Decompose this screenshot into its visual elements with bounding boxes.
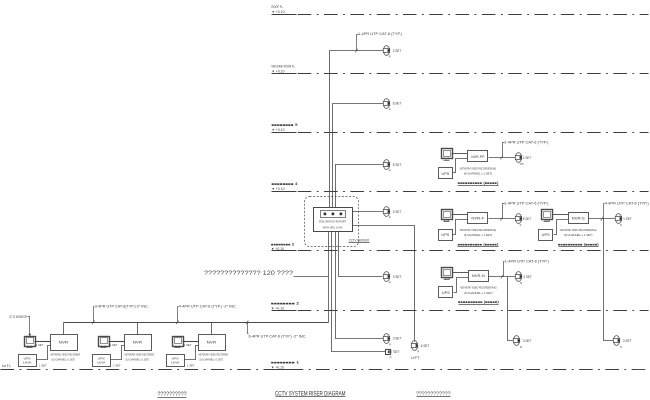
- floor label underline solids: [272, 14, 297, 16]
- recorder NVR-N: [469, 271, 489, 282]
- svg-text:1 SET: 1 SET: [110, 343, 118, 347]
- riser wire to 5th floor camera: [333, 104, 385, 208]
- CCTV server dashed enclosure: [305, 197, 359, 247]
- floor line 5th floor: [272, 132, 649, 134]
- wire UPS to NVR-S: [554, 220, 569, 235]
- monitor NVR-N: [442, 268, 453, 280]
- wire monitor to NVR-PP: [452, 153, 468, 155]
- svg-text:1 SET: 1 SET: [187, 364, 195, 368]
- svg-text:8 SET: 8 SET: [393, 163, 402, 167]
- svg-text:▼ +0.10: ▼ +0.10: [272, 187, 285, 191]
- svg-text:■■■■■■■■■■ (■■■■■): ■■■■■■■■■■ (■■■■■): [458, 242, 499, 246]
- UPS of NVR-S: [539, 230, 553, 241]
- monitor NVR-PP: [442, 149, 453, 161]
- svg-text:(8-CHANNEL x 1 SET): (8-CHANNEL x 1 SET): [464, 233, 492, 237]
- UPS 1KVA: [93, 355, 111, 367]
- svg-text:1st FL.: 1st FL.: [2, 364, 12, 368]
- UPS 1KVA: [19, 355, 37, 367]
- recorder NVR-S: [569, 213, 589, 224]
- camera 3rd floor 5 SET: [383, 207, 390, 217]
- wire UPS to NVR: [37, 346, 51, 360]
- monitor: [173, 337, 184, 348]
- svg-text:UPS: UPS: [441, 233, 450, 237]
- svg-text:NVR: NVR: [59, 340, 69, 345]
- svg-text:NETWORK VIDEO RECORDER: NETWORK VIDEO RECORDER: [51, 352, 81, 356]
- svg-text:NETWORK VIDEO RECORDER(PoE): NETWORK VIDEO RECORDER(PoE): [460, 228, 496, 232]
- recorder NVR: [51, 335, 78, 351]
- camera 2nd floor 3 SET: [383, 272, 390, 282]
- svg-text:P: P: [417, 350, 419, 354]
- svg-text:NVR-S: NVR-S: [572, 216, 586, 220]
- svg-text:P: P: [389, 342, 391, 346]
- svg-text:3 SET: 3 SET: [623, 339, 632, 343]
- svg-text:3 SET: 3 SET: [523, 339, 532, 343]
- POE switch box: [314, 208, 353, 232]
- riser wire to 4th floor camera: [336, 165, 385, 208]
- riser wire POE to ground bus: [328, 232, 330, 323]
- svg-text:CCTV SERVER: CCTV SERVER: [349, 238, 370, 242]
- floor line MACHINE ROOM FL: [272, 73, 649, 75]
- svg-text:1KVA: 1KVA: [97, 361, 106, 365]
- svg-text:3 SET: 3 SET: [393, 275, 402, 279]
- monitor NVR-F: [442, 210, 453, 222]
- svg-text:P: P: [389, 215, 391, 219]
- wire UPS to NVR: [111, 346, 125, 360]
- camera NVR-N camera: [515, 272, 522, 282]
- svg-text:ROOF FL.: ROOF FL.: [272, 5, 284, 9]
- svg-text:??????????: ??????????: [158, 392, 188, 398]
- svg-text:LIFT: LIFT: [411, 356, 420, 360]
- wire NVR-S down to 1st floor camera S: [604, 219, 615, 341]
- svg-text:NVR: NVR: [207, 340, 217, 345]
- svg-text:5 SET: 5 SET: [393, 210, 402, 214]
- svg-text:(8-CHANNEL x 1 SET): (8-CHANNEL x 1 SET): [464, 172, 492, 176]
- svg-text:6 SET: 6 SET: [421, 344, 430, 348]
- svg-text:1-4PR UTP CAT-6 (TYP.): 1-4PR UTP CAT-6 (TYP.): [505, 259, 549, 263]
- svg-text:■■■■■■■■■■ (■■■■■): ■■■■■■■■■■ (■■■■■): [558, 242, 599, 246]
- recorder NVR-F: [468, 213, 488, 224]
- svg-text:1 SET: 1 SET: [36, 343, 44, 347]
- svg-text:7 SET: 7 SET: [391, 350, 400, 354]
- svg-text:F: F: [520, 223, 522, 227]
- svg-text:NETWORK VIDEO RECORDER: NETWORK VIDEO RECORDER: [199, 352, 229, 356]
- svg-text:1KVA: 1KVA: [23, 361, 32, 365]
- drop from bus to NVR: [63, 323, 65, 335]
- svg-text:▼ +0.10: ▼ +0.10: [272, 128, 285, 132]
- camera NVR-S camera: [615, 214, 622, 224]
- svg-text:POE SWITCH 48 PORT: POE SWITCH 48 PORT: [319, 220, 346, 224]
- wire monitor to NVR-N: [453, 272, 469, 274]
- svg-text:(8-CHANNEL x 1 SET): (8-CHANNEL x 1 SET): [464, 291, 492, 295]
- camera NVR-PP camera: [515, 153, 522, 163]
- svg-text:UPS: UPS: [442, 291, 451, 295]
- svg-text:1-4PR UTP CAT-6 (TYP.): 1-4PR UTP CAT-6 (TYP.): [504, 202, 548, 206]
- svg-text:■■■■■■■■ 2: ■■■■■■■■ 2: [271, 302, 299, 306]
- wire UPS to NVR-PP: [453, 159, 468, 173]
- svg-text:P: P: [389, 107, 391, 111]
- svg-text:S: S: [620, 223, 622, 227]
- junction tick at NVR-S camera wire: [601, 217, 603, 221]
- svg-text:?????????????? 120 ????: ?????????????? 120 ????: [204, 270, 293, 277]
- svg-text:3 SET: 3 SET: [393, 337, 402, 341]
- svg-text:4-4PR UTP CAT-6 (TYP.) -2″ INC: 4-4PR UTP CAT-6 (TYP.) -2″ INC.: [179, 304, 237, 308]
- svg-text:WITH UPS 1 KVA: WITH UPS 1 KVA: [323, 226, 343, 230]
- svg-text:(16-CHANNEL x 1 SET): (16-CHANNEL x 1 SET): [52, 358, 76, 362]
- leader of note 120: [294, 276, 329, 278]
- svg-text:NETWORK VIDEO RECORDER(PoE): NETWORK VIDEO RECORDER(PoE): [560, 228, 596, 232]
- camera south 3 SET: [613, 336, 620, 346]
- monitor NVR-S: [542, 210, 553, 222]
- wire NVR-F to camera: [489, 218, 517, 220]
- wire NVR-N to camera: [489, 276, 517, 278]
- monitor: [99, 337, 110, 348]
- junction tick at NVR-PP camera wire: [500, 156, 502, 160]
- svg-text:CCTV MONITOR: CCTV MONITOR: [9, 315, 28, 319]
- UPS of NVR-N: [439, 287, 453, 298]
- wire monitor to NVR-F: [452, 214, 468, 216]
- monitor: [25, 337, 36, 348]
- svg-text:NVR-F: NVR-F: [471, 216, 485, 220]
- svg-text:▼ +0.10: ▼ +0.10: [271, 365, 284, 369]
- svg-text:■■■■■■■■ 5: ■■■■■■■■ 5: [272, 123, 298, 127]
- door device 7 SET: [386, 350, 391, 355]
- wire POE to lift camera: [353, 226, 415, 342]
- svg-text:NVR-PP: NVR-PP: [471, 155, 485, 159]
- floor line 2nd floor: [272, 310, 649, 312]
- riser wire POE to door station: [332, 232, 386, 352]
- camera roof 2 SET: [383, 46, 390, 56]
- drop from bus to NVR: [211, 323, 213, 335]
- svg-text:N: N: [520, 281, 522, 285]
- wire NVR-S to camera: [589, 218, 617, 220]
- wire monitor to NVR: [183, 341, 199, 343]
- camera north 3 SET: [513, 336, 520, 346]
- wire UPS to NVR: [185, 346, 199, 360]
- camera NVR-F camera: [515, 214, 522, 224]
- junction tick at NVR-N camera wire: [501, 275, 503, 279]
- floor line ROOF FL: [272, 14, 649, 16]
- wire NVR-PP to camera: [489, 157, 517, 159]
- wire monitor to NVR: [35, 341, 51, 343]
- svg-text:■■■■■■■■ 1: ■■■■■■■■ 1: [271, 361, 299, 365]
- svg-text:1 SET: 1 SET: [39, 364, 47, 368]
- svg-text:■■■■■■■■ 4: ■■■■■■■■ 4: [272, 182, 298, 186]
- svg-text:1KVA: 1KVA: [171, 361, 180, 365]
- svg-text:N: N: [520, 345, 522, 349]
- camera 1st floor 3 SET: [383, 334, 390, 344]
- svg-text:2 SET: 2 SET: [523, 156, 532, 160]
- svg-text:1 SET: 1 SET: [184, 343, 192, 347]
- svg-text:(16-CHANNEL x 1 SET): (16-CHANNEL x 1 SET): [200, 358, 224, 362]
- recorder NVR: [199, 335, 226, 351]
- svg-text:NETWORK VIDEO RECORDER: NETWORK VIDEO RECORDER: [125, 352, 155, 356]
- wire UPS to NVR-F: [453, 220, 468, 235]
- svg-text:NETWORK VIDEO RECORDER(PoE): NETWORK VIDEO RECORDER(PoE): [460, 167, 496, 171]
- svg-text:▼ +0.10: ▼ +0.10: [271, 306, 284, 310]
- svg-text:5 SET: 5 SET: [523, 217, 532, 221]
- svg-text:3-4PR UTP CAT-6(TYP.)-2″ INC.: 3-4PR UTP CAT-6(TYP.)-2″ INC.: [95, 304, 149, 308]
- riser wire POE to 2nd floor camera: [339, 232, 383, 277]
- svg-text:1 SET: 1 SET: [623, 217, 632, 221]
- wire monitor to NVR-S: [553, 214, 569, 216]
- floor line 1st floor: [1, 369, 649, 371]
- svg-text:P: P: [389, 168, 391, 172]
- svg-text:MACHINE ROOM FL.: MACHINE ROOM FL.: [272, 65, 296, 69]
- svg-text:1-4PR UTP CAT-6 (TYP.): 1-4PR UTP CAT-6 (TYP.): [504, 140, 548, 144]
- POE switch port strip: [321, 211, 346, 218]
- svg-text:S: S: [620, 345, 622, 349]
- svg-text:P: P: [390, 356, 392, 360]
- svg-text:NETWORK VIDEO RECORDER(PoE): NETWORK VIDEO RECORDER(PoE): [460, 286, 496, 290]
- wire UPS to NVR-N: [454, 278, 469, 293]
- svg-text:2 SET: 2 SET: [393, 49, 402, 53]
- svg-text:6-4PR UTP CAT-6 (TYP.) -2″ INC: 6-4PR UTP CAT-6 (TYP.) -2″ INC.: [249, 335, 307, 339]
- svg-text:8 SET: 8 SET: [393, 102, 402, 106]
- UPS of NVR-PP: [439, 168, 453, 179]
- recorder NVR-PP: [468, 151, 488, 162]
- camera 5th floor 8 SET: [383, 99, 390, 109]
- svg-text:(16-CHANNEL x 1 SET): (16-CHANNEL x 1 SET): [126, 358, 150, 362]
- svg-text:4-4PR UTP CAT-6 (TYP.): 4-4PR UTP CAT-6 (TYP.): [605, 202, 649, 206]
- camera lift 6 SET: [411, 341, 418, 351]
- svg-text:NVR: NVR: [133, 340, 143, 345]
- svg-text:P: P: [389, 281, 391, 285]
- svg-text:PP: PP: [520, 162, 524, 166]
- svg-text:UPS: UPS: [441, 172, 450, 176]
- svg-text:▼ +0.10: ▼ +0.10: [272, 10, 285, 14]
- svg-text:1-4PR UTP CAT-6 (TYP.): 1-4PR UTP CAT-6 (TYP.): [358, 32, 402, 36]
- UPS 1KVA: [167, 355, 185, 367]
- riser wire POE to 1st floor camera: [336, 232, 385, 339]
- floor line 3rd floor: [272, 250, 649, 252]
- svg-text:1 SET: 1 SET: [113, 364, 121, 368]
- svg-text:■■■■■■■■■■ (■■■■■): ■■■■■■■■■■ (■■■■■): [458, 181, 499, 185]
- drop from bus to NVR: [137, 323, 139, 335]
- svg-text:■■■■■■■■■■ (■■■■■): ■■■■■■■■■■ (■■■■■): [458, 300, 499, 304]
- riser wire to roof camera: [330, 51, 385, 208]
- junction tick roof wire: [355, 49, 357, 53]
- wire monitor to NVR: [109, 341, 125, 343]
- floor line 4th floor: [272, 191, 649, 193]
- svg-text:4 SET: 4 SET: [523, 275, 532, 279]
- svg-text:UPS: UPS: [542, 233, 551, 237]
- svg-text:NVR-N: NVR-N: [472, 274, 485, 278]
- svg-text:▼ +0.10: ▼ +0.10: [272, 69, 285, 73]
- svg-text:P: P: [389, 54, 391, 58]
- junction tick at NVR-F camera wire: [500, 217, 502, 221]
- camera 4th floor 8 SET: [383, 160, 390, 170]
- ground bus wire: [64, 322, 329, 324]
- recorder NVR: [125, 335, 152, 351]
- wire POE to 3rd floor camera: [353, 211, 385, 213]
- UPS of NVR-F: [439, 230, 453, 241]
- wire NVR-N down to 1st floor camera N: [508, 277, 515, 341]
- svg-text:(8-CHANNEL x 1 SET): (8-CHANNEL x 1 SET): [564, 233, 592, 237]
